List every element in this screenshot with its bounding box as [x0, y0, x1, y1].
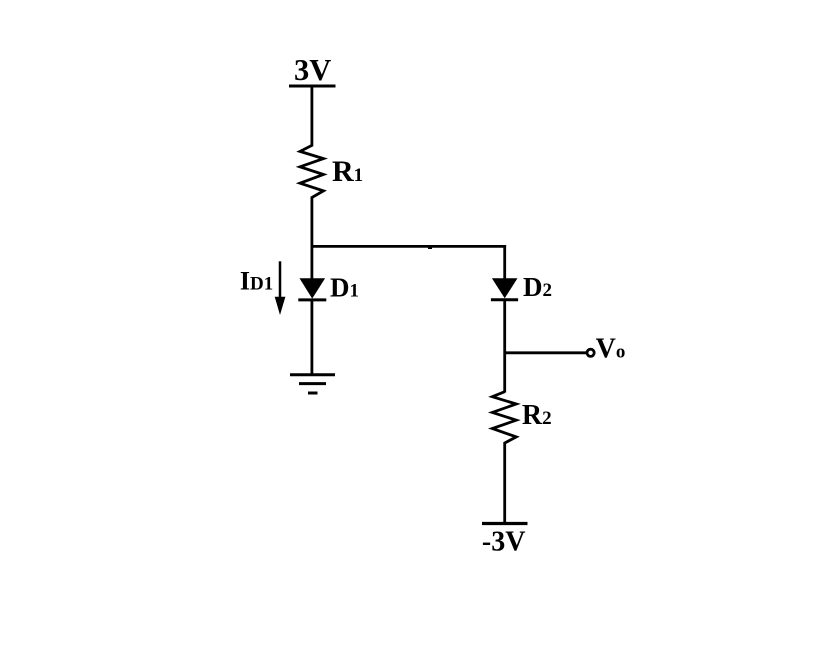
svg-text:R1: R1	[332, 155, 363, 188]
svg-text:R2: R2	[522, 400, 552, 431]
svg-text:D1: D1	[330, 273, 359, 303]
wire R1 to node	[310, 197, 313, 280]
ground	[290, 375, 335, 393]
resistor R2	[492, 392, 516, 443]
+3V supply rail bar	[289, 85, 336, 88]
svg-text:Vo: Vo	[596, 333, 626, 364]
resistor R1	[300, 145, 324, 197]
svg-text:-3V: -3V	[482, 526, 526, 557]
wire R2 to -3V rail	[503, 442, 506, 524]
svg-text:ID1: ID1	[240, 266, 273, 295]
svg-text:D2: D2	[523, 272, 552, 302]
current arrow ID1	[275, 261, 286, 315]
-3V supply rail bar	[482, 522, 528, 525]
wire 3V rail to R1	[310, 86, 313, 147]
diode D1	[298, 278, 326, 300]
node wire (horizontal)	[311, 245, 507, 248]
wire node to D2	[503, 245, 506, 280]
wire D1 to ground	[310, 300, 313, 375]
diode D2	[491, 278, 518, 299]
wire node to Vo terminal	[505, 351, 586, 354]
wire D2 to R2	[503, 300, 506, 393]
svg-text:3V: 3V	[294, 53, 331, 87]
terminal Vo (open circle)	[587, 349, 594, 356]
junction tick on node wire	[428, 247, 432, 249]
